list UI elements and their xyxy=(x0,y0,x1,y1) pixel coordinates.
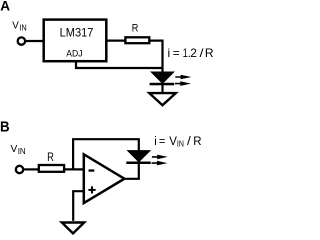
label i = 1.2 / R xyxy=(168,46,214,60)
node VIN (B) label xyxy=(11,144,26,156)
LED D1 (A) triangle xyxy=(153,73,173,83)
op-amp minus sign xyxy=(89,169,95,171)
ground (A) xyxy=(149,93,176,105)
svg-text:R: R xyxy=(205,46,214,60)
wire VIN to LM317 input xyxy=(26,40,43,42)
wire LED to ground (A) xyxy=(161,85,163,92)
resistor R (B) xyxy=(39,165,64,172)
input terminal circle (B) xyxy=(16,166,23,173)
svg-text:=: = xyxy=(159,136,166,148)
ADJ pin wire to output node xyxy=(76,61,163,68)
feedback wire up and over to LED xyxy=(73,139,139,169)
regulator U1 LM317 box xyxy=(44,20,107,62)
svg-text:B: B xyxy=(0,118,10,135)
svg-text:R: R xyxy=(193,136,201,148)
LED D1 (A) emission arrow 2 xyxy=(175,81,191,86)
resistor R (A) xyxy=(125,37,149,43)
LED D1 (A) emission arrow 1 xyxy=(175,75,191,80)
LED D2 (B) emission arrow 2 xyxy=(152,161,168,166)
svg-text:IN: IN xyxy=(18,146,26,156)
wire resistor to LED node, corner down xyxy=(149,41,163,73)
svg-text:IN: IN xyxy=(177,139,184,149)
wire non-inverting input to ground xyxy=(73,191,84,221)
node VIN (A) label xyxy=(12,21,26,33)
wire op-amp output to LED xyxy=(123,163,139,179)
wire LM317 output to resistor R xyxy=(106,39,125,41)
svg-text:V: V xyxy=(12,21,19,32)
op-amp U1 triangle xyxy=(84,154,125,203)
svg-text:V: V xyxy=(11,144,18,155)
svg-text:R: R xyxy=(132,22,139,34)
LED D2 (B) emission arrow 1 xyxy=(152,155,168,160)
ground (B) xyxy=(62,223,84,234)
svg-text:i: i xyxy=(168,46,171,60)
wire resistor to op-amp inverting input xyxy=(64,168,83,170)
input terminal circle (A) xyxy=(18,37,25,44)
svg-text:LM317: LM317 xyxy=(60,27,94,39)
LED D1 (A) cathode bar xyxy=(150,83,175,86)
svg-text:i: i xyxy=(154,136,157,148)
op-amp plus sign xyxy=(88,186,95,193)
svg-text:R: R xyxy=(47,152,54,164)
LED D2 (B) cathode bar xyxy=(126,162,150,165)
wire VIN to resistor R (B) xyxy=(24,168,39,170)
label i = VIN / R xyxy=(154,136,201,149)
svg-text:IN: IN xyxy=(19,22,26,32)
svg-text:2: 2 xyxy=(190,46,197,60)
svg-text:ADJ: ADJ xyxy=(66,49,82,59)
LED D2 (B) triangle xyxy=(129,151,148,161)
svg-text:A: A xyxy=(0,0,10,14)
svg-text:=: = xyxy=(173,46,180,60)
